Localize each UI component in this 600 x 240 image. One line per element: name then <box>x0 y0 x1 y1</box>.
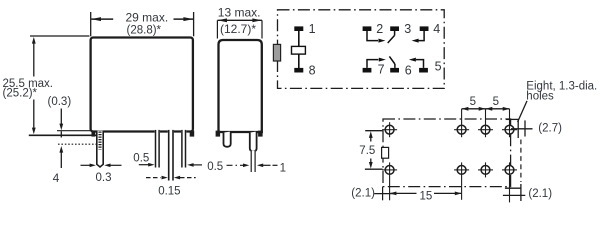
svg-text:(28.8)*: (28.8)* <box>127 25 162 37</box>
dimension 0.5 left arrow <box>139 163 155 167</box>
hole T4 <box>502 122 517 137</box>
label Eight, 1.3-dia. holes <box>526 80 597 102</box>
hole T2 <box>454 122 469 137</box>
dimension (2.1) left horizontal <box>374 193 396 195</box>
coil pin (front view left pin) <box>97 131 103 167</box>
svg-text:4: 4 <box>53 171 60 185</box>
svg-text:3: 3 <box>404 22 411 36</box>
pcb box left edge extension down <box>382 187 384 201</box>
dimension 0.15 dashed arrows at long pin <box>146 176 196 180</box>
svg-text:5: 5 <box>435 60 442 74</box>
orientation mark gray tab <box>273 44 280 61</box>
dimension (2.1) right cluster <box>503 184 525 201</box>
svg-text:8: 8 <box>309 63 316 77</box>
svg-text:(25.2)*: (25.2)* <box>3 88 38 100</box>
wire from pad 7 with arrow <box>367 58 386 68</box>
svg-text:holes: holes <box>526 91 554 103</box>
coil terminal pad 8 <box>294 68 303 73</box>
side view long pin upper part <box>250 132 257 152</box>
dimension 13 max. line with arrows <box>217 18 262 22</box>
svg-text:(2.1): (2.1) <box>351 187 375 199</box>
svg-text:2: 2 <box>376 22 383 36</box>
front pin 3 long <box>168 130 174 181</box>
dimension (0.3) down arrow <box>59 109 63 131</box>
side view long pin narrow extension <box>251 150 256 172</box>
dimension 7.5 vertical with arrows <box>369 131 373 168</box>
svg-text:15: 15 <box>420 190 433 202</box>
hole T1 <box>382 122 397 137</box>
hole B4 <box>502 162 517 177</box>
svg-text:1: 1 <box>309 22 316 36</box>
contact pad 6 <box>390 68 399 73</box>
svg-text:7: 7 <box>378 62 385 76</box>
contact pad 2 <box>363 26 372 31</box>
schematic dash-dot border <box>278 10 445 89</box>
coil terminal pad 1 <box>294 26 303 31</box>
dotted reference line <box>58 143 96 145</box>
dimension 0.3 arrows at coil pin <box>81 164 122 168</box>
svg-text:(0.3): (0.3) <box>48 96 72 108</box>
front pin 2 <box>155 130 160 168</box>
svg-text:0.5: 0.5 <box>133 152 149 164</box>
extension line from hole B1 down <box>389 177 391 200</box>
svg-text:29 max.: 29 max. <box>126 11 169 25</box>
pcb orientation mark white tab <box>382 147 389 158</box>
pcb outline dash-dot box <box>383 119 511 187</box>
svg-text:7.5: 7.5 <box>359 145 375 157</box>
coil rectangle <box>292 46 306 54</box>
front pin 4 <box>181 130 186 168</box>
extension line from hole B4 down <box>509 177 511 202</box>
hole T3 <box>478 122 493 137</box>
front view extension line right <box>193 12 195 36</box>
dimension 4 up arrow <box>59 146 63 168</box>
front view left foot <box>92 131 96 137</box>
dimension 25.5 max vertical line with arrows <box>32 37 36 134</box>
top-left extension line for 25.5 dim <box>30 35 90 37</box>
coil terminal 8 stem <box>298 54 300 68</box>
front view extension line left <box>90 12 92 36</box>
extension line T3 up <box>485 109 487 123</box>
contact pad 4 <box>420 26 429 31</box>
front view right foot <box>190 131 195 137</box>
extension line T2 up <box>461 109 463 123</box>
svg-text:5: 5 <box>470 96 476 108</box>
svg-text:0.3: 0.3 <box>96 172 112 184</box>
extension line from hole B2 down <box>461 177 463 200</box>
hole B1 <box>382 162 397 177</box>
dimension 0.5 right arrow pointing left at pin 4 <box>187 163 202 167</box>
coil pin hatched upper part <box>98 132 101 150</box>
svg-text:13 max.: 13 max. <box>218 5 261 19</box>
tick across seating line for 4 dim <box>60 131 62 137</box>
svg-text:0.5: 0.5 <box>207 161 223 173</box>
hole B3 <box>478 162 493 177</box>
seating plane line B <box>29 134 96 136</box>
dimension 1 arrows at narrow pin <box>243 164 278 168</box>
contact pad 3 <box>390 26 399 31</box>
dimension 1 dash-dot leader left <box>227 164 244 166</box>
dimension 29 max. line right segment with arrow <box>174 17 194 21</box>
leader line from holes label <box>518 101 527 122</box>
dimension (2.7) cluster <box>506 119 533 138</box>
contact pad 7 <box>363 68 372 73</box>
case bottom extension line A <box>57 130 90 132</box>
side view right foot <box>258 131 263 137</box>
svg-text:0.15: 0.15 <box>158 186 180 198</box>
svg-text:(2.1): (2.1) <box>528 188 552 200</box>
extension line from hole T1 left <box>365 130 382 132</box>
svg-text:5: 5 <box>493 96 499 108</box>
dimension 15 line with arrows <box>390 192 462 196</box>
side view case body <box>219 40 262 132</box>
dashed case edge extension vertical <box>520 140 522 183</box>
movable blade bottom pole <box>389 56 395 68</box>
wire from pad 5 with arrow <box>409 58 424 68</box>
svg-text:(12.7)*: (12.7)* <box>220 22 256 36</box>
svg-text:1: 1 <box>280 162 286 174</box>
side view extension line right <box>261 20 263 38</box>
movable blade top pole <box>388 31 395 43</box>
svg-text:4: 4 <box>433 22 440 36</box>
coil terminal 1 stem <box>298 31 300 46</box>
extension line T4 up <box>509 109 511 123</box>
dimension 5 5 line above holes <box>462 107 510 111</box>
extension line from hole B1 left <box>365 168 383 170</box>
svg-text:6: 6 <box>405 64 412 78</box>
wire from pad 2 with arrow <box>367 31 385 43</box>
wire from pad 4 with arrow <box>412 31 425 43</box>
front view case body <box>91 38 193 132</box>
contact pad 5 <box>419 68 428 73</box>
side view left foot <box>216 131 221 137</box>
dimension 29 max. line left segment with arrow <box>91 17 113 21</box>
side view extension line left <box>216 20 218 38</box>
side view short pin <box>224 132 231 147</box>
hole B2 <box>454 162 469 177</box>
svg-text:(2.7): (2.7) <box>538 123 562 135</box>
